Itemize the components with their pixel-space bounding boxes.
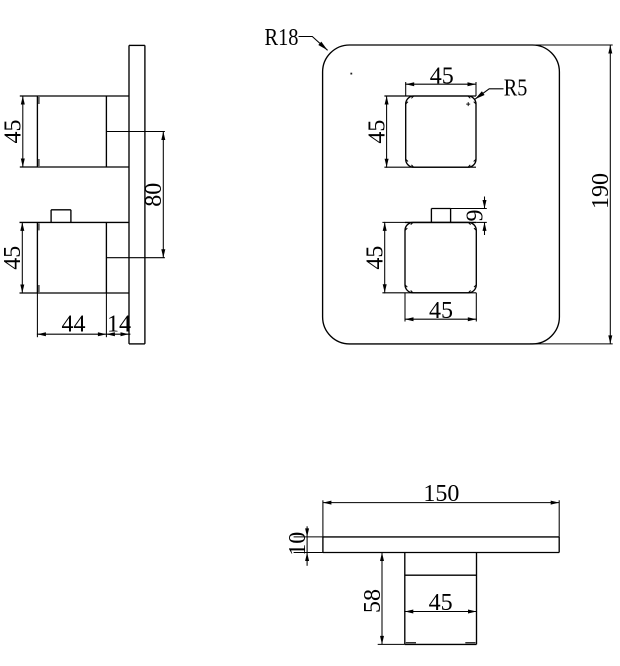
front view: upper square corner-radius centre mark	[466, 102, 470, 106]
dimension 58 (handle projection, bottom view)	[360, 553, 405, 645]
front view: temperature tab on lower square	[405, 209, 476, 223]
svg-text:45: 45	[430, 63, 454, 89]
label R5 with leader to upper square corner	[475, 76, 528, 102]
front view: lower square handle	[405, 222, 476, 292]
svg-text:14: 14	[107, 311, 131, 337]
dimension 45 (handle width, bottom view)	[404, 590, 477, 616]
svg-text:10: 10	[285, 532, 311, 556]
dimension 190 (plate height, front view)	[530, 45, 614, 344]
stray plot dot	[350, 73, 352, 75]
bottom view: plate cross-section	[323, 537, 559, 553]
dimension 150 (plate width, bottom view)	[323, 481, 559, 537]
svg-text:58: 58	[360, 589, 386, 613]
svg-text:45: 45	[363, 246, 389, 270]
front view: trim plate (rounded rectangle R18)	[323, 45, 560, 344]
dimension 80 (handle centre spacing, side view)	[106, 132, 167, 258]
side view: upper handle body	[20, 96, 129, 167]
dimension 10 (plate thickness, bottom view)	[285, 526, 323, 566]
svg-text:44: 44	[62, 311, 86, 337]
svg-text:80: 80	[141, 183, 167, 207]
dimension 45 (lower square width, front view)	[405, 293, 477, 324]
svg-text:45: 45	[1, 120, 27, 144]
svg-text:45: 45	[0, 246, 26, 270]
dimension 45 (lower handle height, side view)	[0, 222, 26, 293]
side view: lower handle corner-radius silhouette marks	[38, 223, 40, 292]
dimension 45 (upper square height, front view)	[364, 96, 390, 168]
side view: temperature tab on lower handle	[51, 210, 71, 223]
svg-text:45: 45	[364, 120, 390, 144]
side view: lower handle body	[20, 222, 130, 293]
dimension 45 (upper square width, front view)	[384, 63, 476, 167]
svg-text:45: 45	[429, 590, 453, 616]
dimension 9 (tab height, front view)	[451, 197, 489, 236]
side view: wall plate (vertical bar)	[129, 45, 145, 344]
svg-text:190: 190	[588, 173, 614, 209]
side view: upper handle corner-radius silhouette marks	[38, 97, 40, 166]
front view: upper square handle	[406, 96, 476, 167]
dimension 44 / 14 (handle depth and flange depth, side view)	[37, 293, 131, 337]
svg-text:150: 150	[423, 481, 459, 507]
bottom view: handle corner-radius silhouette marks	[406, 642, 476, 644]
svg-text:45: 45	[429, 298, 453, 324]
dimension 45 (lower square height, front view)	[363, 222, 477, 293]
svg-text:9: 9	[462, 210, 488, 222]
svg-text:R18: R18	[265, 25, 299, 51]
label R18 with leader to plate corner	[265, 25, 328, 51]
svg-text:R5: R5	[504, 76, 528, 102]
dimension 45 (upper handle height, side view)	[1, 96, 27, 167]
bottom view: handle block	[405, 553, 477, 645]
